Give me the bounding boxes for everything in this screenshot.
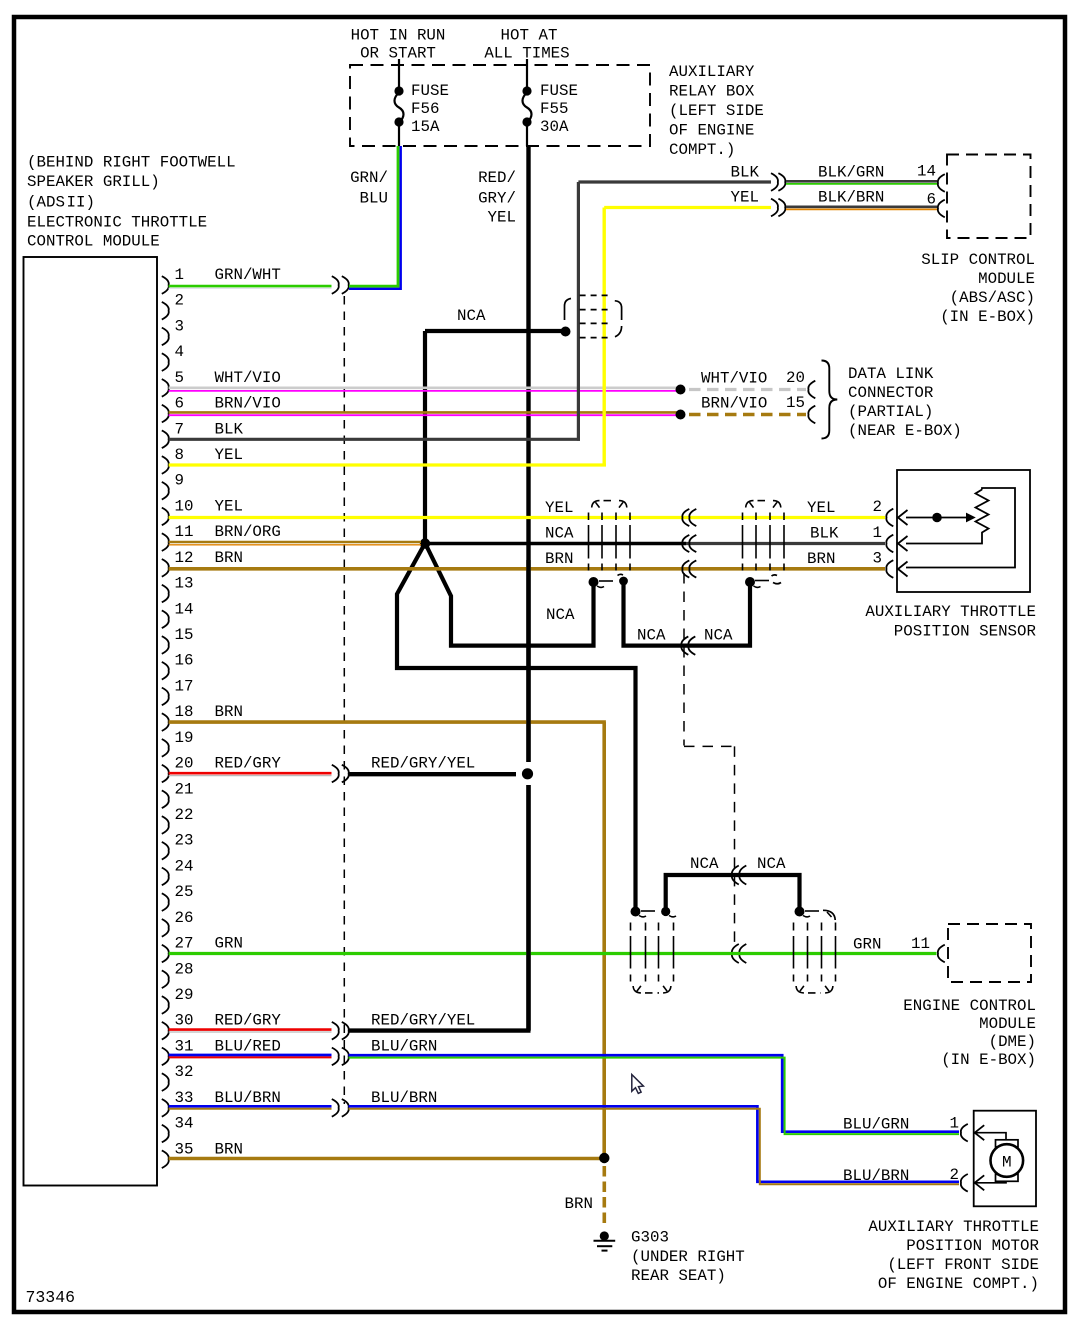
pin 14 label — [917, 163, 936, 181]
svg-text:WHT/VIO: WHT/VIO — [701, 370, 767, 388]
sensor pin 1 number — [873, 524, 882, 542]
wire label GRN/WHT pin 1 — [215, 266, 281, 284]
wire label GRN pin 27 — [215, 935, 243, 953]
module pin 13 connector — [162, 585, 169, 603]
pin number 17 — [175, 677, 194, 695]
pin number 20 — [175, 755, 194, 773]
connector bundle on BLK/YEL verticals (dashed) — [565, 295, 622, 337]
junction dot group1 right — [618, 574, 628, 585]
svg-text:(PARTIAL): (PARTIAL) — [848, 403, 933, 421]
junction feed/pin20 — [522, 768, 533, 779]
svg-text:CONTROL MODULE: CONTROL MODULE — [27, 233, 160, 251]
svg-text:24: 24 — [175, 857, 194, 875]
dashed connector face line (right) — [684, 573, 735, 944]
wire BLU/RED pin 31 — [169, 1055, 332, 1057]
svg-text:26: 26 — [175, 909, 194, 927]
pin number 14 — [175, 600, 194, 618]
svg-text:(ABS/ASC): (ABS/ASC) — [950, 289, 1035, 307]
svg-text:2: 2 — [175, 292, 184, 310]
svg-text:20: 20 — [786, 369, 805, 387]
label BRN (right) — [807, 550, 835, 568]
svg-text:6: 6 — [927, 191, 936, 209]
module pin 8 connector — [162, 456, 169, 474]
module pin 34 connector — [162, 1125, 169, 1143]
svg-text:GRN/: GRN/ — [350, 169, 388, 187]
svg-text:BLK/BRN: BLK/BRN — [818, 189, 884, 207]
auxiliary throttle position motor box — [974, 1111, 1036, 1207]
svg-text:G303: G303 — [631, 1229, 669, 1247]
engine control module box (dashed) — [948, 924, 1031, 982]
label YEL (relay area) — [731, 189, 759, 207]
svg-text:21: 21 — [175, 780, 194, 798]
connector ( motor pin2 — [961, 1174, 968, 1192]
wire label BLU/BRN pin 33 — [215, 1089, 281, 1107]
svg-text:9: 9 — [175, 472, 184, 490]
connector pin1 inline — [332, 276, 349, 294]
wire RED/GRY pin 20 — [169, 773, 332, 775]
module pin 23 connector — [162, 842, 169, 860]
module pin 9 connector — [162, 482, 169, 500]
svg-text:NCA: NCA — [457, 307, 486, 325]
svg-text:RED/GRY/YEL: RED/GRY/YEL — [371, 1012, 475, 1030]
pin number 23 — [175, 832, 194, 850]
svg-text:YEL: YEL — [545, 499, 573, 517]
connector group 4 (dashed, GRN wire) — [794, 923, 836, 993]
connector group 1 (dashed, sensor wires) — [589, 501, 631, 571]
module pin 22 connector — [162, 816, 169, 834]
svg-text:(UNDER RIGHT: (UNDER RIGHT — [631, 1248, 745, 1266]
module pin 15 connector — [162, 636, 169, 654]
sensor pin3 arrow — [898, 562, 908, 577]
label NCA (left of group1) — [545, 525, 574, 543]
label BLU/GRN (motor) — [843, 1116, 909, 1134]
wire label BRN pin 35 — [215, 1140, 243, 1158]
bridge line group3 — [641, 910, 655, 912]
svg-text:BLU/GRN: BLU/GRN — [371, 1037, 437, 1055]
wire label RED/GRY/YEL (pin 20) — [371, 755, 475, 773]
svg-text:BRN/ORG: BRN/ORG — [215, 523, 281, 541]
svg-text:BRN: BRN — [215, 1140, 243, 1158]
auxiliary throttle position sensor box — [897, 470, 1030, 592]
label FUSE F55 30A — [540, 82, 578, 136]
module pin 2 connector — [162, 302, 169, 320]
svg-text:34: 34 — [175, 1115, 194, 1133]
wire BLK/GRN to slip module — [786, 181, 937, 184]
label RED/GRY/YEL (feed) — [478, 169, 516, 227]
svg-text:BLU: BLU — [360, 190, 388, 208]
wire NCA/BLK to sensor pin 1 — [425, 542, 885, 546]
bridge line group1 — [599, 580, 613, 582]
svg-text:CONNECTOR: CONNECTOR — [848, 384, 934, 402]
junction dot group2 left — [745, 577, 761, 587]
svg-text:(ADS: (ADS — [27, 194, 65, 212]
svg-text:73346: 73346 — [26, 1288, 76, 1307]
label BLK (right) — [810, 525, 839, 543]
pin number 5 — [175, 369, 184, 387]
connector pin31 inline — [332, 1048, 349, 1066]
hook group2 right — [772, 575, 782, 584]
label BLK/GRN — [818, 164, 884, 182]
module pin 5 connector — [162, 379, 169, 397]
wire NCA V-split right branch — [427, 546, 594, 646]
svg-text:HOT AT: HOT AT — [501, 27, 558, 45]
svg-text:RED/: RED/ — [478, 169, 516, 187]
svg-text:1: 1 — [873, 524, 882, 542]
connector )) BLK — [771, 173, 785, 191]
svg-text:MODULE: MODULE — [978, 270, 1035, 288]
label BLK/BRN — [818, 189, 884, 207]
svg-text:(IN E-BOX): (IN E-BOX) — [941, 1051, 1036, 1069]
wire NCA U-link (group1 to group2) — [624, 582, 751, 646]
svg-text:F55: F55 — [540, 100, 568, 118]
connector ( ECM pin11 — [938, 945, 945, 963]
label FUSE F56 15A — [411, 82, 449, 136]
svg-text:3: 3 — [873, 550, 882, 568]
pin number 19 — [175, 729, 194, 747]
svg-text:10: 10 — [175, 497, 194, 515]
label NCA (top) — [457, 307, 486, 325]
svg-text:FUSE: FUSE — [411, 82, 449, 100]
svg-text:29: 29 — [175, 986, 194, 1004]
pin number 10 — [175, 497, 194, 515]
wire NCA lower link (group3 to group4) — [666, 875, 800, 912]
svg-text:3: 3 — [175, 317, 184, 335]
svg-text:19: 19 — [175, 729, 194, 747]
pin number 24 — [175, 857, 194, 875]
svg-text:BLK: BLK — [731, 164, 760, 182]
wire label RED/GRY/YEL (pin 30) — [371, 1012, 475, 1030]
junction dot group3 left — [631, 907, 647, 917]
module pin 16 connector — [162, 662, 169, 680]
svg-text:AUXILIARY THROTTLE: AUXILIARY THROTTLE — [865, 603, 1036, 621]
motor internal wiring — [975, 1133, 1006, 1183]
wire BLU/BRN pin 33 to motor — [349, 1106, 960, 1184]
wire label WHT/VIO pin 5 — [215, 369, 281, 387]
svg-text:35: 35 — [175, 1140, 194, 1158]
wire BRN pin 35 — [169, 1157, 606, 1161]
label BLK (relay area) — [731, 164, 760, 182]
svg-text:NCA: NCA — [637, 627, 666, 645]
svg-text:FUSE: FUSE — [540, 82, 578, 100]
pin number 16 — [175, 652, 194, 670]
pin number 33 — [175, 1089, 194, 1107]
wire RED/GRY pin 30 — [169, 1030, 332, 1032]
wire YEL pin 10 to sensor — [169, 516, 885, 519]
connector pin20 inline — [332, 765, 349, 783]
svg-text:BRN: BRN — [545, 550, 573, 568]
svg-text:BRN/VIO: BRN/VIO — [215, 395, 281, 413]
label BRN (ground) — [565, 1195, 593, 1213]
svg-text:(LEFT FRONT SIDE: (LEFT FRONT SIDE — [887, 1256, 1039, 1274]
pin number 4 — [175, 343, 184, 361]
svg-text:7: 7 — [175, 420, 184, 438]
svg-text:15: 15 — [786, 394, 805, 412]
module pin 31 connector — [162, 1048, 169, 1066]
pin number 30 — [175, 1012, 194, 1030]
module pin 24 connector — [162, 868, 169, 886]
pin number 2 — [175, 292, 184, 310]
label BRN (left of group1) — [545, 550, 573, 568]
svg-text:(BEHIND RIGHT FOOTWELL: (BEHIND RIGHT FOOTWELL — [27, 154, 236, 172]
label ELECTRONIC THROTTLE CONTROL MODULE — [27, 154, 236, 251]
svg-text:6: 6 — [175, 395, 184, 413]
junction dot group3 right — [661, 907, 676, 917]
label NCA (lower left) — [690, 855, 719, 873]
svg-text:DATA LINK: DATA LINK — [848, 365, 934, 383]
module pin 12 connector — [162, 559, 169, 577]
svg-text:BLU/RED: BLU/RED — [215, 1037, 281, 1055]
wire label BLU/BRN (pin 33) — [371, 1089, 437, 1107]
label HOT IN RUN OR START — [351, 27, 446, 63]
svg-text:NCA: NCA — [546, 606, 575, 624]
svg-text:II): II) — [67, 194, 95, 212]
wire BRN dashed to ground — [602, 1166, 606, 1227]
svg-text:SLIP CONTROL: SLIP CONTROL — [921, 251, 1035, 269]
wire WHT/VIO dashed to DLC — [689, 388, 806, 391]
pin number 12 — [175, 549, 194, 567]
svg-text:23: 23 — [175, 832, 194, 850]
svg-text:14: 14 — [175, 600, 194, 618]
svg-text:25: 25 — [175, 883, 194, 901]
module pin 28 connector — [162, 970, 169, 988]
svg-text:YEL: YEL — [488, 209, 516, 227]
pin 20 label (DLC) — [786, 369, 805, 387]
pin 6 label (slip) — [927, 191, 936, 209]
svg-text:YEL: YEL — [215, 497, 243, 515]
svg-text:BLU/BRN: BLU/BRN — [371, 1089, 437, 1107]
connector (( YEL — [682, 509, 696, 526]
svg-text:8: 8 — [175, 446, 184, 464]
hook group4 right — [823, 910, 835, 920]
motor M circle — [991, 1144, 1024, 1177]
pin number 26 — [175, 909, 194, 927]
wire label YEL pin 8 — [215, 446, 243, 464]
label NCA (U-link right) — [704, 627, 733, 645]
potentiometer wiper — [906, 513, 976, 523]
fuse F56 15A — [394, 59, 403, 146]
module pin 11 connector — [162, 533, 169, 551]
label AUXILIARY RELAY BOX (LEFT SIDE OF ENGINE COMPT.) — [669, 63, 764, 159]
svg-text:(IN E-BOX): (IN E-BOX) — [940, 308, 1035, 326]
bridge line group2 — [755, 580, 769, 582]
svg-text:13: 13 — [175, 575, 194, 593]
module pin 17 connector — [162, 688, 169, 706]
pin number 22 — [175, 806, 194, 824]
module pin 35 connector — [162, 1150, 169, 1168]
wire YEL pin 8 — [169, 208, 771, 467]
junction WHT/VIO to DLC — [676, 385, 686, 395]
pin number 18 — [175, 703, 194, 721]
sensor pin 2 number — [873, 498, 882, 516]
wire label RED/GRY pin 20 — [215, 755, 282, 773]
label NCA (V wires) — [546, 606, 575, 624]
label GRN/BLU — [350, 169, 388, 208]
svg-text:NCA: NCA — [757, 855, 786, 873]
svg-text:17: 17 — [175, 677, 194, 695]
svg-text:COMPT.): COMPT.) — [669, 141, 735, 159]
module pin 25 connector — [162, 893, 169, 911]
svg-text:BLU/GRN: BLU/GRN — [843, 1116, 909, 1134]
svg-text:BLK: BLK — [810, 525, 839, 543]
sensor pin2 arrow — [898, 510, 908, 525]
svg-text:15: 15 — [175, 626, 194, 644]
svg-text:11: 11 — [911, 935, 930, 953]
pin number 15 — [175, 626, 194, 644]
wire BRN/VIO pin 6 — [169, 412, 678, 415]
wire label BRN pin 18 — [215, 703, 243, 721]
label BLU/BRN (motor) — [843, 1167, 909, 1185]
wire BLK/BRN to slip module — [786, 207, 937, 210]
wire NCA V-split left branch — [397, 546, 636, 912]
wire BRN pin 18 — [169, 722, 606, 1158]
wire RED/GRY/YEL main feed (overdraw) — [526, 560, 530, 1031]
svg-text:RED/GRY: RED/GRY — [215, 1012, 282, 1030]
module pin 3 connector — [162, 328, 169, 346]
svg-text:4: 4 — [175, 343, 184, 361]
svg-text:27: 27 — [175, 935, 194, 953]
svg-text:YEL: YEL — [731, 189, 759, 207]
connector (( BRN — [682, 560, 696, 577]
data link connector brace — [822, 361, 838, 439]
svg-text:F56: F56 — [411, 100, 439, 118]
svg-text:BLU/BRN: BLU/BRN — [215, 1089, 281, 1107]
pin number 9 — [175, 472, 184, 490]
connector (( on NCA lower link — [732, 866, 746, 885]
junction dot group1 left — [589, 577, 605, 587]
svg-text:NCA: NCA — [690, 855, 719, 873]
label NCA (U-link left) — [637, 627, 666, 645]
wire BLU/BRN pin 33 — [169, 1106, 332, 1108]
pin number 28 — [175, 960, 194, 978]
wire RED/GRY/YEL main feed (thick black) — [349, 146, 531, 1031]
connector (( on GRN wire — [732, 944, 746, 963]
svg-text:BRN: BRN — [565, 1195, 593, 1213]
svg-text:BRN: BRN — [807, 550, 835, 568]
module pin 20 connector — [162, 765, 169, 783]
motor pin2 arrow — [975, 1175, 985, 1190]
pin number 31 — [175, 1037, 194, 1055]
pin number 13 — [175, 575, 194, 593]
label YEL (right) — [807, 499, 835, 517]
motor pin 2 number — [950, 1166, 959, 1184]
sensor pin1 arrow — [898, 536, 908, 551]
svg-text:POSITION SENSOR: POSITION SENSOR — [894, 623, 1037, 641]
pin number 21 — [175, 780, 194, 798]
svg-text:BRN: BRN — [215, 549, 243, 567]
wire label BRN/VIO pin 6 — [215, 395, 281, 413]
svg-text:M: M — [1002, 1154, 1012, 1172]
module pin 10 connector — [162, 508, 169, 526]
label GRN (ECM) — [853, 936, 881, 954]
svg-text:AUXILIARY THROTTLE: AUXILIARY THROTTLE — [868, 1218, 1039, 1236]
svg-text:MODULE: MODULE — [979, 1015, 1036, 1033]
svg-text:32: 32 — [175, 1063, 194, 1081]
module pin 27 connector — [162, 945, 169, 963]
connector ( motor pin1 — [961, 1124, 968, 1142]
motor terminals — [996, 1140, 1019, 1182]
label ENGINE CONTROL MODULE (DME) (IN E-BOX) — [903, 997, 1036, 1069]
pin number 6 — [175, 395, 184, 413]
wire GRN pin 27 to ECM — [169, 952, 937, 955]
wire label BRN pin 12 — [215, 549, 243, 567]
svg-text:14: 14 — [917, 163, 936, 181]
svg-text:5: 5 — [175, 369, 184, 387]
svg-text:1: 1 — [175, 266, 184, 284]
fuse F55 30A — [522, 59, 531, 146]
label BRN/VIO (DLC) — [701, 395, 767, 413]
pin number 32 — [175, 1063, 194, 1081]
wire GRN/WHT pin 1 — [169, 286, 332, 288]
drawing number 73346 — [26, 1288, 76, 1307]
connector ( slip pin14 — [938, 174, 945, 192]
svg-text:NCA: NCA — [545, 525, 574, 543]
module pin 6 connector — [162, 405, 169, 423]
module pin 18 connector — [162, 713, 169, 731]
wire label BLU/GRN (pin 31) — [371, 1037, 437, 1055]
motor pin1 arrow — [975, 1125, 985, 1140]
wire BLK pin 7 — [169, 182, 771, 441]
connector pin33 inline — [332, 1099, 349, 1117]
connector group 2 (dashed, sensor wires) — [743, 501, 785, 571]
svg-text:ELECTRONIC THROTTLE: ELECTRONIC THROTTLE — [27, 214, 207, 232]
module pin 32 connector — [162, 1073, 169, 1091]
svg-text:REAR SEAT): REAR SEAT) — [631, 1267, 726, 1285]
connector ( slip pin6 — [938, 200, 945, 218]
wire RED/GRY/YEL pin 20 branch — [349, 772, 517, 776]
svg-text:BLK/GRN: BLK/GRN — [818, 164, 884, 182]
module pin 1 connector — [162, 276, 169, 294]
label WHT/VIO (DLC) — [701, 370, 767, 388]
wire label YEL pin 10 — [215, 497, 243, 515]
pin number 25 — [175, 883, 194, 901]
connector pin30 inline — [332, 1022, 349, 1040]
svg-text:BRN: BRN — [215, 703, 243, 721]
svg-text:30A: 30A — [540, 118, 569, 136]
ECM pin 11 number — [911, 935, 930, 953]
bridge line group4 — [805, 910, 819, 912]
pin number 11 — [175, 523, 194, 541]
svg-text:GRN: GRN — [853, 936, 881, 954]
junction BRN/G303 — [599, 1153, 609, 1163]
junction BRN/VIO to DLC — [676, 410, 686, 420]
svg-text:2: 2 — [873, 498, 882, 516]
module pin 33 connector — [162, 1099, 169, 1117]
connector ( DLC pin20 — [808, 381, 815, 399]
pin number 8 — [175, 446, 184, 464]
connector ( DLC pin15 — [808, 406, 815, 424]
wire label BRN/ORG pin 11 — [215, 523, 281, 541]
junction node pin11/NCA — [420, 538, 430, 548]
label AUXILIARY THROTTLE POSITION SENSOR — [865, 603, 1036, 641]
svg-text:BLU/BRN: BLU/BRN — [843, 1167, 909, 1185]
svg-text:31: 31 — [175, 1037, 194, 1055]
wire label BLK pin 7 — [215, 420, 244, 438]
svg-text:YEL: YEL — [215, 446, 243, 464]
wire BLU/GRN pin 31 to motor — [349, 1055, 960, 1134]
svg-text:(LEFT SIDE: (LEFT SIDE — [669, 102, 764, 120]
pin number 29 — [175, 986, 194, 1004]
potentiometer resistor — [976, 490, 989, 538]
label YEL (left of group1) — [545, 499, 573, 517]
wire BRN/ORG pin 11 — [169, 542, 421, 545]
module pin 21 connector — [162, 790, 169, 808]
mouse cursor — [632, 1075, 644, 1094]
svg-text:ENGINE CONTROL: ENGINE CONTROL — [903, 997, 1036, 1015]
label AUXILIARY THROTTLE POSITION MOTOR (LEFT FRONT SIDE OF ENGINE COMPT.) — [868, 1218, 1039, 1293]
wire GRN/BLU from fuse F56 — [349, 146, 401, 289]
pin number 34 — [175, 1115, 194, 1133]
module pin 4 connector — [162, 353, 169, 371]
